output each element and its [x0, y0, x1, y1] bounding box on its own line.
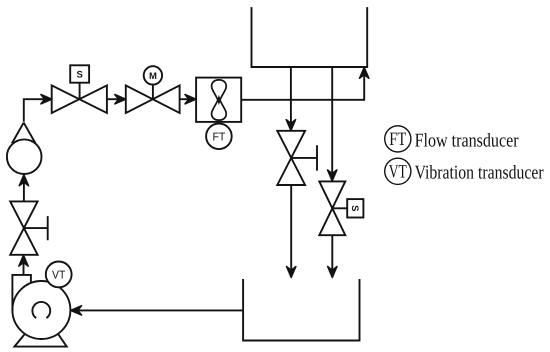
wire bottom tank to pump suction [77, 309, 243, 311]
wire V4 to bottom tank [331, 235, 333, 271]
check unit cone [12, 123, 36, 144]
pump P1 outlet duct [12, 275, 31, 311]
wire pump discharge to valve V5 [23, 261, 25, 275]
wire top tank outlet 1 (down to V3) [290, 67, 292, 125]
svg-text:S: S [349, 205, 360, 211]
valve V1 [52, 85, 107, 113]
flow meter rotor (figure-eight) [212, 80, 227, 103]
wire motor stem V2 [152, 85, 154, 100]
svg-text:Vibration transducer: Vibration transducer [415, 163, 544, 184]
wire V5 to check unit [23, 181, 25, 201]
valve V3 [277, 131, 305, 185]
legend bubble FT [385, 126, 411, 152]
wire suction riser elbow to valve V1 [24, 99, 46, 122]
wire V4 to solenoid box [332, 207, 347, 209]
svg-text:VT: VT [52, 270, 65, 282]
legend bubble VT [385, 158, 411, 184]
wire V3 to bottom tank [290, 185, 292, 272]
pump P1 base [14, 334, 66, 347]
svg-text:VT: VT [389, 162, 407, 183]
wire V3 handle [291, 145, 317, 170]
wire top tank outlet 2 (down to V4) [331, 67, 333, 175]
wire flow meter to top tank inlet [241, 73, 364, 100]
valve V5 [10, 201, 37, 254]
flow transducer bubble FT [206, 124, 232, 150]
svg-text:Flow transducer: Flow transducer [415, 131, 519, 152]
wire V5 handle [24, 216, 48, 240]
top tank T1 [252, 7, 368, 67]
svg-text:FT: FT [213, 131, 226, 143]
solenoid box S (on V1) [70, 65, 89, 82]
vibration transducer bubble VT [46, 262, 72, 288]
motor actuator M (on V2) [144, 66, 162, 84]
solenoid box S (on V4) [347, 199, 363, 217]
valve V4 [319, 181, 345, 235]
svg-text:M: M [149, 71, 157, 82]
svg-text:S: S [77, 70, 83, 81]
flow meter box FE [196, 78, 241, 122]
pump P1 casing [12, 281, 70, 339]
bottom tank T2 [243, 279, 359, 341]
wire solenoid stem V1 [79, 83, 81, 99]
wire V1 to V2 [107, 98, 120, 100]
wire V2 to flow meter [180, 98, 190, 100]
valve V2 [126, 85, 180, 113]
pump P1 impeller arc [32, 302, 50, 318]
check unit body circle [7, 139, 42, 174]
svg-text:FT: FT [389, 129, 406, 150]
